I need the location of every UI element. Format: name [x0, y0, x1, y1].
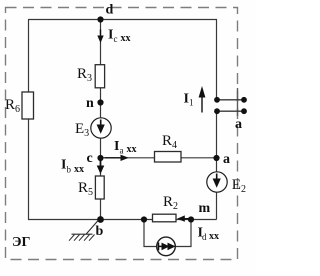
svg-text:1: 1 [189, 98, 194, 108]
junction (left node of current-source group) [141, 216, 147, 222]
svg-text:xx: xx [121, 33, 131, 44]
resistor R6 [5, 92, 34, 119]
node m [188, 201, 211, 223]
terminal pair a (open output terminals) [214, 97, 247, 132]
EMF source E3 [75, 118, 111, 139]
current arrow I1 (right branch, pointing up) [184, 86, 206, 113]
wire: top bus d (horizontal) [28, 19, 217, 21]
svg-text:a: a [235, 117, 242, 132]
svg-text:ЭГ: ЭГ [12, 235, 30, 250]
resistor R2 (parallel with current source) [153, 194, 179, 222]
wire: middle vertical branch d-n-c-b [100, 20, 102, 220]
wire: right branch vertical lower (terminal to a, through E2, to bottom bus) [216, 111, 218, 220]
wire: bottom bus (horizontal) [28, 219, 217, 221]
node a (junction of R4 and right branch) [213, 152, 230, 167]
dashed boundary box of equivalent generator (ЭГ) [6, 8, 238, 260]
wire: current source lower parallel branch [144, 220, 191, 247]
svg-text:c: c [87, 151, 93, 166]
current arrow Ib xx (on wire c-R5) [61, 158, 104, 176]
current source J (double arrow) [157, 237, 176, 256]
wire: left branch vertical (through R6) [28, 20, 30, 220]
node c [87, 151, 104, 166]
current arrow Ia xx (on wire c-R4) [105, 139, 137, 161]
svg-text:n: n [86, 96, 94, 111]
resistor R5 [78, 176, 104, 199]
resistor R3 [77, 65, 105, 88]
node b [96, 216, 104, 239]
node d (junction dot + label) [97, 3, 113, 23]
current arrow Id xx (on branch m-R2) [177, 215, 219, 242]
EMF source E2 [207, 172, 246, 195]
svg-text:d: d [106, 3, 114, 18]
svg-text:b: b [67, 165, 72, 175]
svg-text:c: c [114, 34, 118, 44]
node n [86, 96, 104, 111]
svg-text:xx: xx [209, 231, 219, 242]
svg-text:b: b [96, 224, 104, 239]
current arrow Ic xx (on wire d-R3) [97, 28, 130, 45]
svg-text:m: m [199, 201, 211, 216]
svg-text:xx: xx [127, 144, 137, 155]
ground symbol at node b [69, 220, 99, 241]
svg-text:d: d [202, 232, 207, 242]
svg-text:a: a [120, 146, 124, 156]
svg-text:xx: xx [74, 164, 84, 175]
svg-text:a: a [223, 152, 230, 167]
wire: middle horizontal branch c-a (through R4) [101, 157, 217, 159]
wire: right branch vertical upper (terminal to top bus) [216, 20, 218, 101]
resistor R4 [155, 133, 182, 162]
